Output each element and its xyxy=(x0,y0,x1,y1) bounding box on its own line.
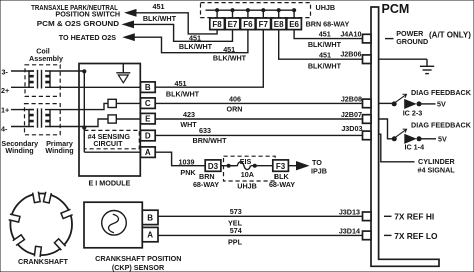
svg-text:(A/T ONLY): (A/T ONLY) xyxy=(429,31,471,40)
svg-text:PCM & O2S GROUND: PCM & O2S GROUND xyxy=(37,19,120,27)
svg-text:E6: E6 xyxy=(289,20,299,29)
svg-text:BLK/WHT: BLK/WHT xyxy=(213,54,247,63)
svg-text:CIRCUIT: CIRCUIT xyxy=(93,139,123,148)
svg-text:J3D13: J3D13 xyxy=(339,207,360,216)
svg-text:633: 633 xyxy=(199,126,211,135)
svg-text:POSITION SWITCH: POSITION SWITCH xyxy=(55,10,120,19)
svg-text:E: E xyxy=(145,115,151,124)
svg-text:(CKP) SENSOR: (CKP) SENSOR xyxy=(112,263,165,272)
svg-text:BRN 68-WAY: BRN 68-WAY xyxy=(306,20,350,29)
svg-text:D3: D3 xyxy=(208,162,219,171)
svg-text:J2B07: J2B07 xyxy=(341,110,362,119)
svg-text:A: A xyxy=(147,231,153,240)
svg-text:CRANKSHAFT: CRANKSHAFT xyxy=(18,257,69,266)
svg-text:1039: 1039 xyxy=(179,157,195,166)
svg-text:4-: 4- xyxy=(1,125,8,134)
svg-text:574: 574 xyxy=(230,226,242,235)
svg-text:F3: F3 xyxy=(276,162,286,171)
svg-text:423: 423 xyxy=(183,110,195,119)
svg-text:E8: E8 xyxy=(274,20,284,29)
svg-text:451: 451 xyxy=(223,45,235,54)
svg-text:J2B08: J2B08 xyxy=(341,94,362,103)
svg-text:451: 451 xyxy=(175,79,187,88)
svg-text:E7: E7 xyxy=(228,20,238,29)
svg-text:5V: 5V xyxy=(438,135,447,144)
svg-text:2+: 2+ xyxy=(1,86,9,95)
svg-text:UHJB: UHJB xyxy=(316,3,336,12)
svg-text:406: 406 xyxy=(229,94,241,103)
svg-text:IC 2-3: IC 2-3 xyxy=(403,108,423,117)
svg-text:68-WAY: 68-WAY xyxy=(193,180,219,189)
svg-text:BLK/WHT: BLK/WHT xyxy=(308,40,342,49)
svg-text:WHT: WHT xyxy=(180,120,197,129)
svg-text:BLK/WHT: BLK/WHT xyxy=(166,89,200,98)
svg-text:573: 573 xyxy=(230,207,242,216)
svg-text:BLK/WHT: BLK/WHT xyxy=(179,42,213,51)
svg-text:TO HEATED O2S: TO HEATED O2S xyxy=(59,33,116,42)
svg-text:451: 451 xyxy=(319,29,331,38)
svg-text:PCM: PCM xyxy=(382,2,410,16)
svg-text:BLK/WHT: BLK/WHT xyxy=(143,14,177,23)
svg-text:J3D14: J3D14 xyxy=(339,226,360,235)
svg-text:BLK/WHT: BLK/WHT xyxy=(308,61,342,70)
svg-text:1+: 1+ xyxy=(1,106,9,115)
svg-text:A: A xyxy=(145,148,151,157)
svg-text:451: 451 xyxy=(153,2,165,11)
svg-text:10A: 10A xyxy=(241,170,254,179)
svg-text:B: B xyxy=(145,83,151,92)
svg-text:5V: 5V xyxy=(437,100,446,109)
svg-text:F6: F6 xyxy=(243,20,253,29)
svg-text:IC 1-4: IC 1-4 xyxy=(405,142,425,151)
svg-text:Winding: Winding xyxy=(45,146,73,155)
svg-text:ORN: ORN xyxy=(227,105,243,114)
svg-text:D: D xyxy=(145,132,151,141)
svg-text:J4A10: J4A10 xyxy=(340,29,361,38)
svg-text:451: 451 xyxy=(319,50,331,59)
svg-text:J3D03: J3D03 xyxy=(341,124,362,133)
svg-text:DIAG FEEDBACK: DIAG FEEDBACK xyxy=(411,120,472,129)
svg-text:UHJB: UHJB xyxy=(237,182,257,191)
svg-text:Winding: Winding xyxy=(5,146,33,155)
svg-text:IPJB: IPJB xyxy=(311,167,327,176)
svg-text:#4 SIGNAL: #4 SIGNAL xyxy=(418,166,456,175)
svg-text:B: B xyxy=(147,213,153,222)
svg-text:F7: F7 xyxy=(259,20,269,29)
svg-text:J2B06: J2B06 xyxy=(340,50,361,59)
svg-text:PPL: PPL xyxy=(228,237,243,246)
svg-text:E I MODULE: E I MODULE xyxy=(89,178,131,187)
svg-text:C: C xyxy=(145,99,151,108)
svg-text:68-WAY: 68-WAY xyxy=(269,180,295,189)
svg-text:PNK: PNK xyxy=(180,168,196,177)
svg-text:F8: F8 xyxy=(212,20,222,29)
svg-text:Assembly: Assembly xyxy=(29,54,63,63)
svg-text:7X REF LO: 7X REF LO xyxy=(394,231,438,241)
svg-text:BRN/WHT: BRN/WHT xyxy=(193,136,228,145)
svg-text:7X REF HI: 7X REF HI xyxy=(394,211,434,221)
svg-text:3-: 3- xyxy=(2,67,9,76)
svg-text:GROUND: GROUND xyxy=(396,37,428,46)
svg-text:CRANKSHAFT POSITION: CRANKSHAFT POSITION xyxy=(95,254,181,263)
svg-text:DIAG FEEDBACK: DIAG FEEDBACK xyxy=(411,88,472,97)
